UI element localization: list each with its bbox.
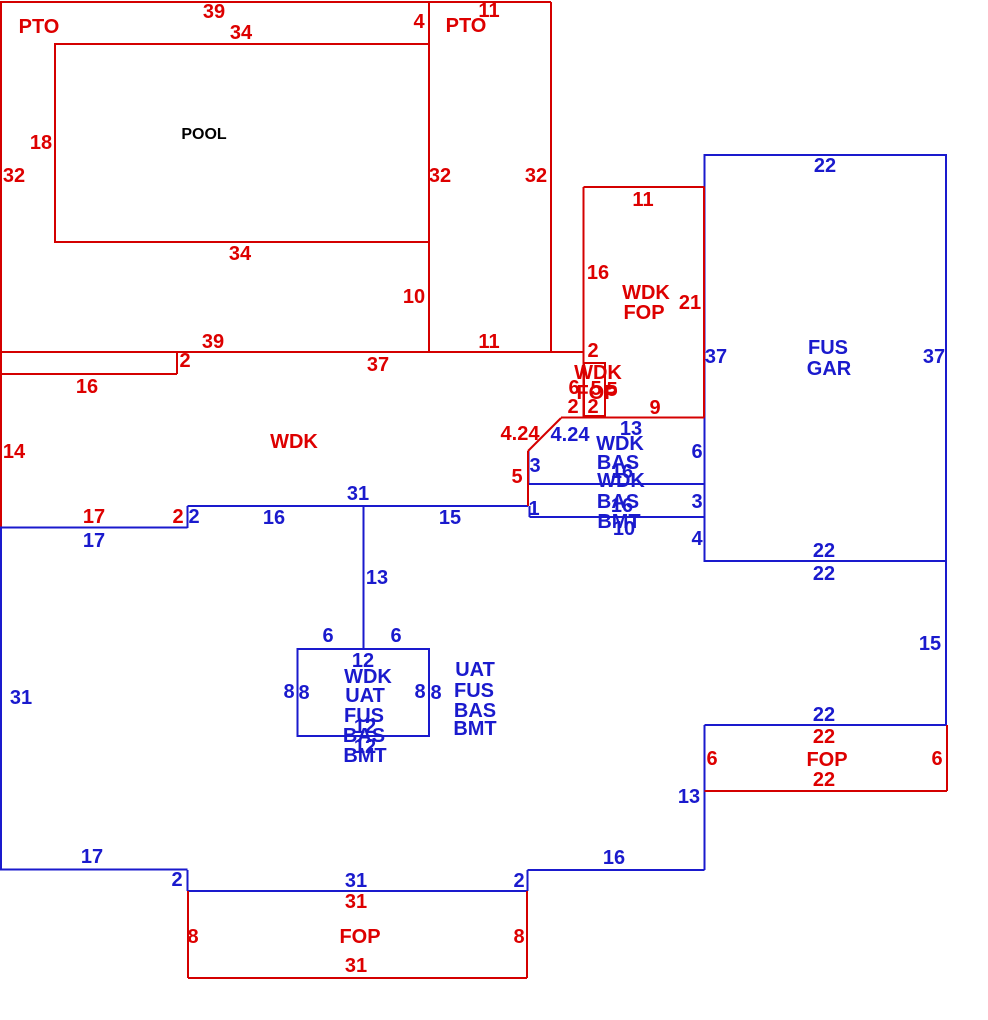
- svg-text:POOL: POOL: [181, 126, 227, 143]
- svg-text:2: 2: [172, 506, 183, 528]
- wire FOP top y=725: [705, 724, 947, 726]
- svg-text:39: 39: [202, 331, 224, 353]
- node tiny WDK FOP rect: [584, 363, 605, 416]
- wire red diagonal 4.24: [528, 418, 561, 451]
- svg-text:21: 21: [679, 292, 701, 314]
- svg-text:2: 2: [587, 396, 598, 418]
- svg-text:11: 11: [632, 189, 653, 211]
- svg-text:11: 11: [478, 0, 499, 22]
- svg-text:22: 22: [814, 155, 836, 177]
- wire blue jog x=529.5: [529, 506, 531, 517]
- svg-text:6: 6: [706, 748, 717, 770]
- svg-text:8: 8: [414, 681, 425, 703]
- wire y=891: [188, 890, 528, 892]
- svg-text:37: 37: [705, 346, 727, 368]
- wire x=187.5 step: [187, 870, 189, 891]
- svg-text:15: 15: [439, 507, 461, 529]
- wire left edge blue 31: [0, 528, 2, 870]
- svg-text:3: 3: [691, 491, 702, 513]
- svg-text:31: 31: [345, 891, 367, 913]
- svg-text:2: 2: [171, 869, 182, 891]
- svg-text:22: 22: [813, 704, 835, 726]
- svg-text:UAT: UAT: [455, 659, 495, 681]
- svg-text:34: 34: [229, 243, 252, 265]
- wire right edge PTO2: [550, 2, 552, 352]
- svg-text:4: 4: [691, 528, 703, 550]
- svg-text:37: 37: [923, 346, 945, 368]
- svg-text:6: 6: [390, 625, 401, 647]
- wire right edge 15: [945, 561, 947, 725]
- svg-text:16: 16: [587, 262, 609, 284]
- svg-text:2: 2: [513, 870, 524, 892]
- svg-text:6: 6: [931, 748, 942, 770]
- svg-text:37: 37: [367, 354, 389, 376]
- wire FOP right rect red right: [946, 725, 948, 791]
- svg-text:1: 1: [528, 498, 539, 520]
- svg-text:32: 32: [429, 165, 451, 187]
- svg-text:9: 9: [649, 397, 660, 419]
- svg-text:10: 10: [403, 286, 425, 308]
- wire blue x=187.5 jog: [187, 506, 189, 528]
- svg-text:16: 16: [263, 507, 285, 529]
- wire red x=528 seg 5: [527, 451, 529, 506]
- wire blue y=527.5: [0, 527, 188, 529]
- svg-text:5: 5: [511, 466, 522, 488]
- wire bottom PTO y=352: [0, 351, 584, 353]
- wire blue main y=506: [188, 505, 529, 507]
- svg-text:16: 16: [76, 376, 98, 398]
- svg-text:17: 17: [81, 846, 103, 868]
- svg-text:32: 32: [3, 165, 25, 187]
- svg-text:22: 22: [813, 563, 835, 585]
- svg-text:WDK: WDK: [597, 470, 645, 492]
- svg-text:31: 31: [347, 483, 369, 505]
- wire red y=417.5: [561, 417, 705, 419]
- wire WDK FOP left x=583.5: [583, 187, 585, 418]
- svg-text:PTO: PTO: [19, 16, 60, 38]
- svg-text:FOP: FOP: [623, 302, 664, 324]
- svg-text:31: 31: [345, 870, 367, 892]
- wire WDK FOP right x=703: [703, 187, 705, 418]
- node UAT rect: [298, 649, 430, 736]
- svg-text:16: 16: [603, 847, 625, 869]
- wire top edge PTO: [0, 1, 551, 3]
- svg-text:FUS: FUS: [808, 337, 848, 359]
- svg-text:UAT: UAT: [345, 685, 385, 707]
- svg-text:FOP: FOP: [806, 749, 847, 771]
- node POOL rect: [55, 44, 429, 242]
- svg-text:13: 13: [678, 786, 700, 808]
- wire bottom FOP left: [187, 891, 189, 978]
- svg-text:10: 10: [613, 518, 635, 540]
- svg-text:2: 2: [567, 396, 578, 418]
- wire blue y=517: [530, 516, 705, 518]
- svg-text:15: 15: [919, 633, 941, 655]
- svg-text:4.24: 4.24: [501, 423, 541, 445]
- svg-text:14: 14: [3, 441, 26, 463]
- wire left edge PTO/WDK: [0, 1, 2, 528]
- svg-text:32: 32: [525, 165, 547, 187]
- svg-text:17: 17: [83, 530, 105, 552]
- svg-text:22: 22: [813, 726, 835, 748]
- svg-text:31: 31: [10, 687, 32, 709]
- svg-text:GAR: GAR: [807, 358, 852, 380]
- svg-text:2: 2: [179, 350, 190, 372]
- svg-text:4.24: 4.24: [551, 424, 591, 446]
- svg-text:BMT: BMT: [343, 745, 386, 767]
- svg-text:39: 39: [203, 1, 225, 23]
- wire bottom FOP bottom: [188, 977, 527, 979]
- wire FUS GAR rect: [705, 155, 947, 561]
- svg-text:8: 8: [513, 926, 524, 948]
- svg-text:6: 6: [322, 625, 333, 647]
- svg-text:WDK: WDK: [270, 431, 318, 453]
- wire blue y=484: [528, 483, 705, 485]
- wire y=870: [528, 869, 705, 871]
- svg-text:22: 22: [813, 769, 835, 791]
- wire divider x=429: [428, 2, 430, 352]
- wire FOP right rect red bottom: [705, 790, 948, 792]
- wire left x=704.5 down 13: [704, 725, 706, 870]
- svg-text:FOP: FOP: [339, 926, 380, 948]
- wire blue vert x=530: [528, 451, 530, 484]
- svg-text:2: 2: [188, 506, 199, 528]
- svg-text:8: 8: [430, 682, 441, 704]
- svg-text:31: 31: [345, 955, 367, 977]
- svg-text:8: 8: [298, 682, 309, 704]
- svg-text:13: 13: [366, 567, 388, 589]
- svg-text:2: 2: [587, 340, 598, 362]
- wire WDK FOP top y=187: [584, 186, 705, 188]
- svg-text:11: 11: [478, 331, 499, 353]
- svg-text:5: 5: [606, 379, 617, 401]
- wire notch vertical x=177: [176, 352, 178, 374]
- wire bottom FOP right: [526, 891, 528, 978]
- svg-text:3: 3: [529, 455, 540, 477]
- svg-text:FUS: FUS: [454, 680, 494, 702]
- wire notch bottom y=374: [0, 373, 177, 375]
- svg-text:17: 17: [83, 506, 105, 528]
- svg-text:WDK: WDK: [622, 282, 670, 304]
- svg-text:34: 34: [230, 22, 253, 44]
- wire blue x=363.5 down 13: [363, 506, 365, 649]
- svg-text:4: 4: [413, 11, 425, 33]
- svg-text:6: 6: [691, 441, 702, 463]
- svg-text:8: 8: [187, 926, 198, 948]
- wire x=527.5 step: [527, 870, 529, 891]
- wire y=869.5: [0, 869, 188, 871]
- svg-text:22: 22: [813, 540, 835, 562]
- svg-text:8: 8: [283, 681, 294, 703]
- svg-text:BMT: BMT: [453, 718, 496, 740]
- svg-text:18: 18: [30, 132, 52, 154]
